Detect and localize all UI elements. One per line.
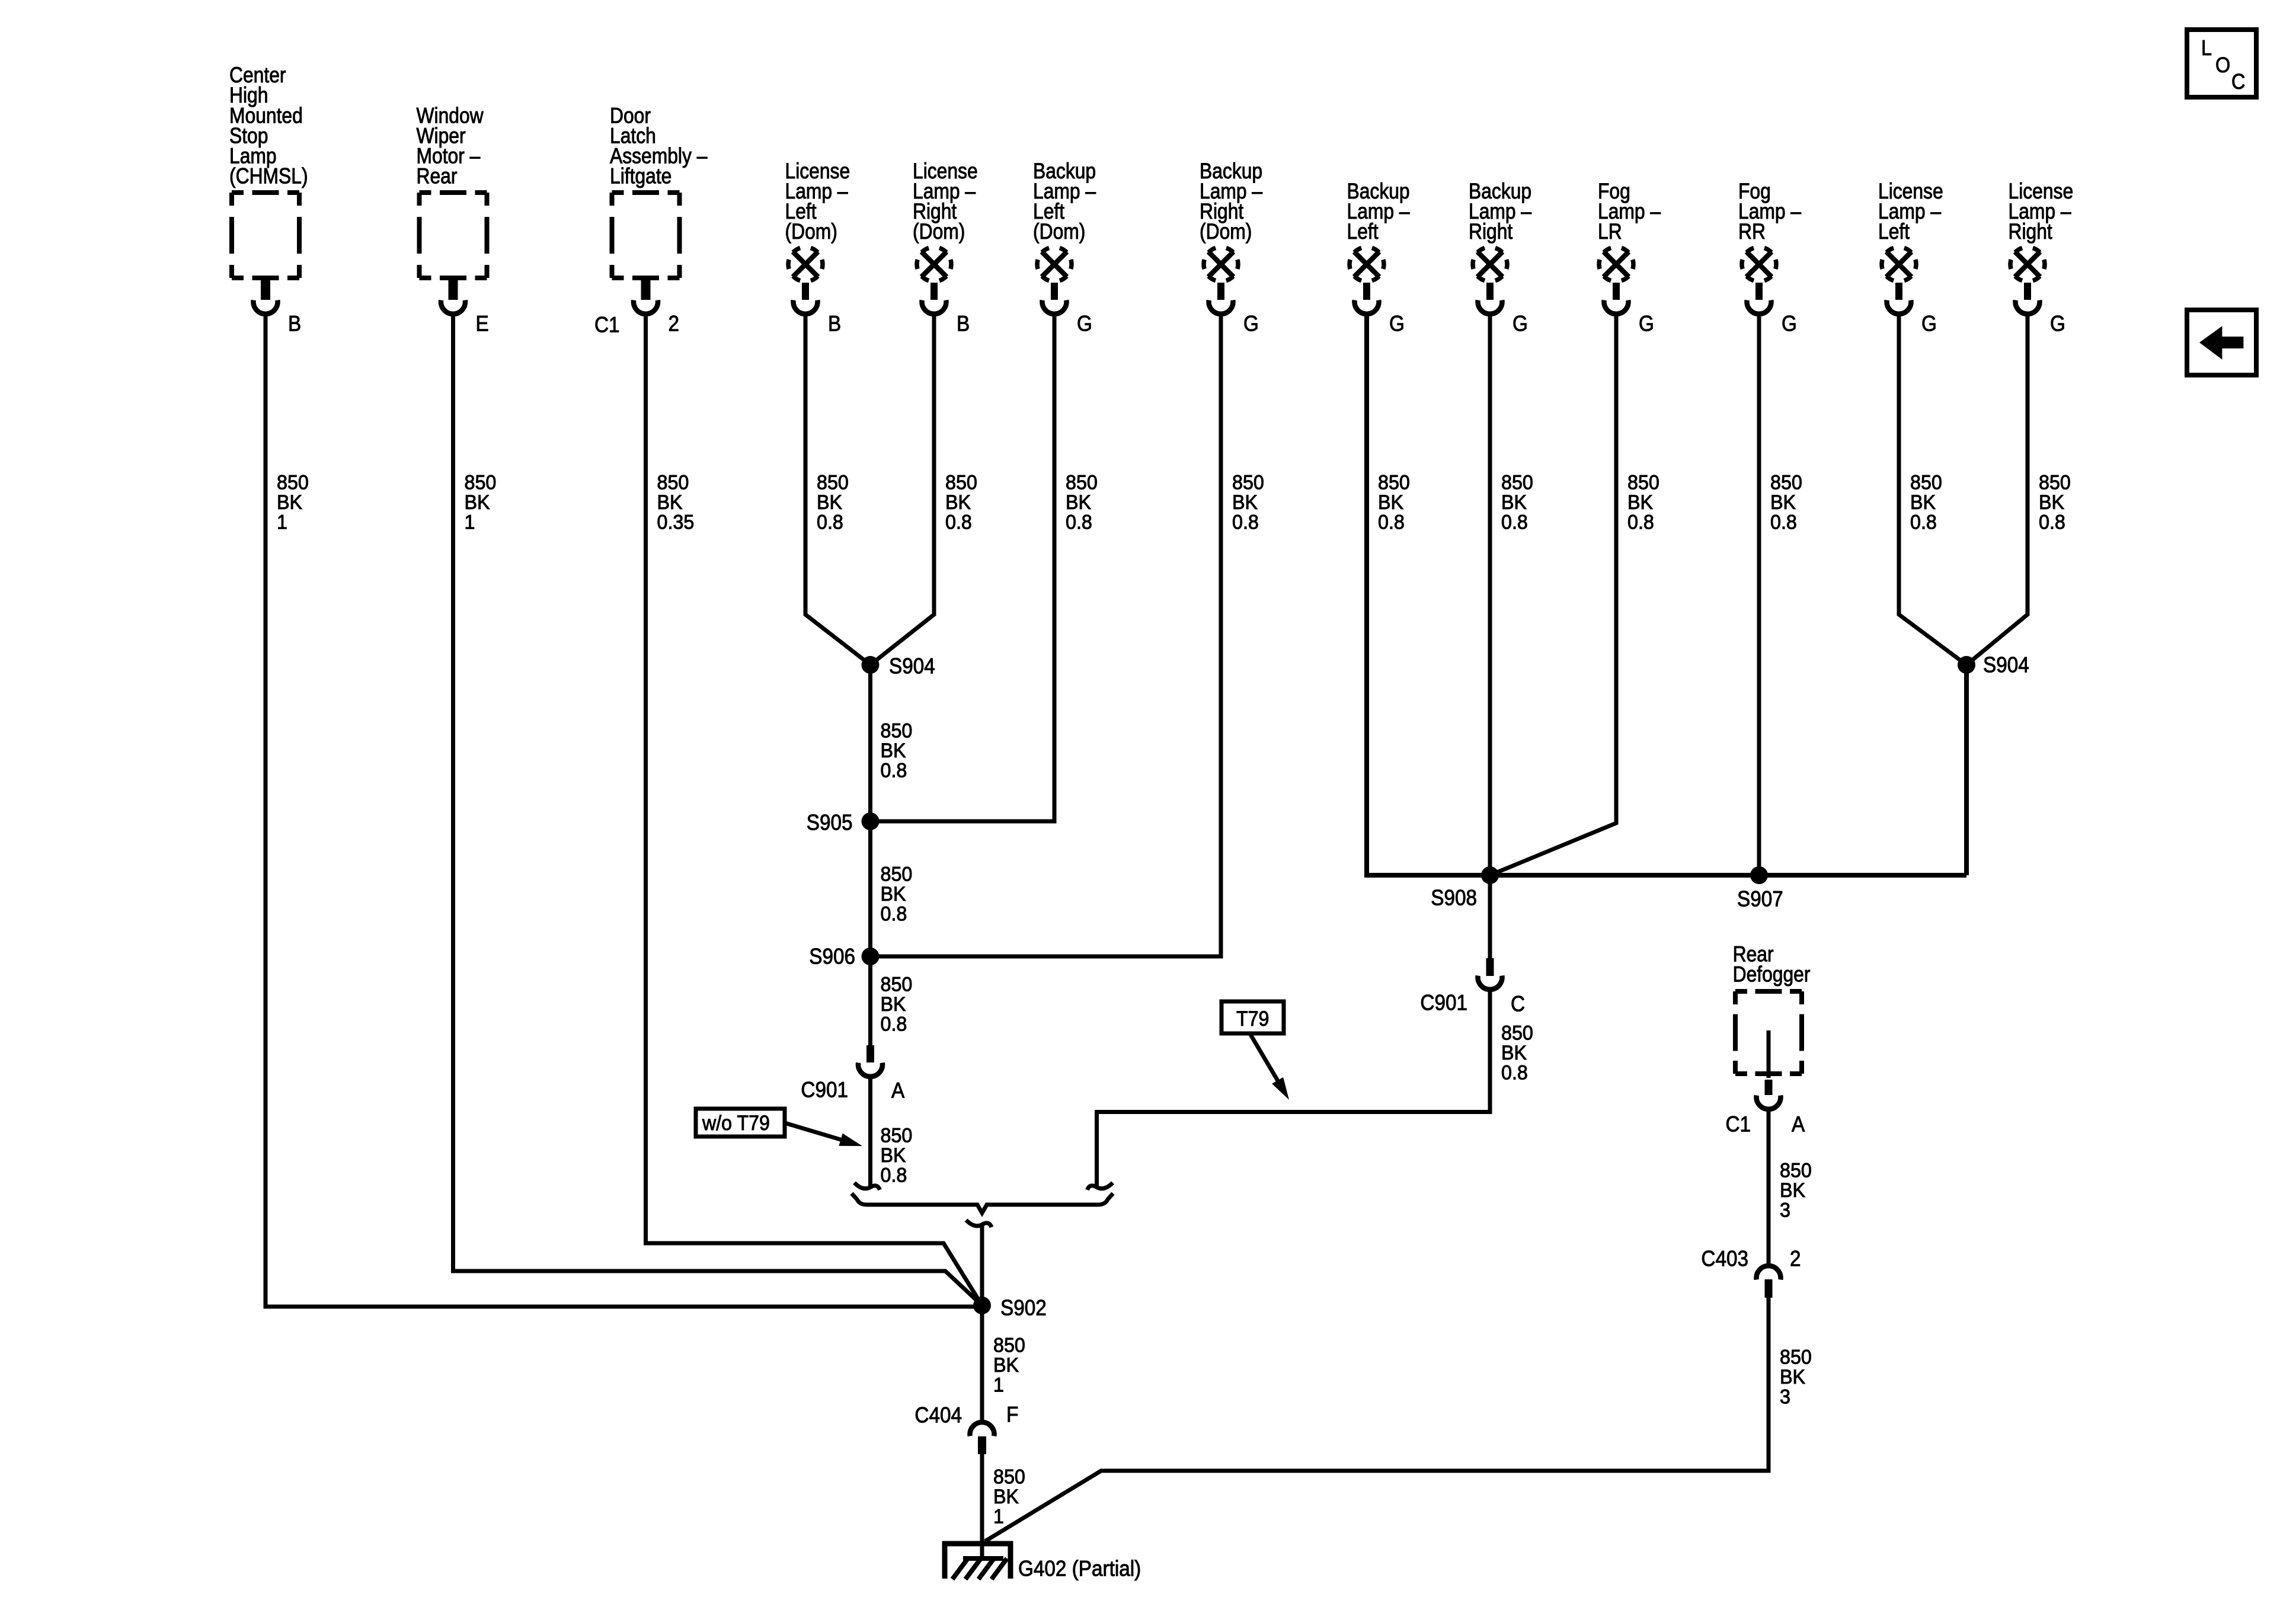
svg-text:3: 3	[1780, 1199, 1790, 1222]
svg-text:0.8: 0.8	[1910, 511, 1937, 534]
svg-text:BK: BK	[1232, 491, 1258, 514]
svg-text:0.8: 0.8	[817, 511, 843, 534]
svg-text:w/o T79: w/o T79	[702, 1112, 770, 1135]
svg-text:850: 850	[657, 472, 689, 494]
svg-text:S904: S904	[889, 654, 935, 678]
svg-text:Liftgate: Liftgate	[610, 164, 671, 188]
svg-text:0.8: 0.8	[881, 1164, 907, 1187]
svg-text:BK: BK	[1780, 1366, 1805, 1388]
svg-text:2: 2	[1790, 1247, 1801, 1271]
svg-text:0.8: 0.8	[945, 511, 972, 534]
svg-text:850: 850	[2039, 472, 2071, 494]
svg-text:Left: Left	[1347, 220, 1379, 244]
svg-text:G: G	[1512, 312, 1528, 336]
svg-text:0.8: 0.8	[1627, 511, 1654, 534]
svg-text:Rear: Rear	[417, 164, 458, 188]
svg-text:850: 850	[881, 974, 913, 996]
svg-text:0.8: 0.8	[1378, 511, 1405, 534]
svg-text:850: 850	[1770, 472, 1802, 494]
svg-text:BK: BK	[1501, 1042, 1527, 1064]
svg-text:850: 850	[1627, 472, 1659, 494]
svg-text:850: 850	[881, 1125, 913, 1147]
svg-text:G: G	[1782, 312, 1797, 336]
svg-text:0.8: 0.8	[1770, 511, 1797, 534]
svg-text:0.8: 0.8	[1501, 511, 1528, 534]
svg-text:RR: RR	[1738, 220, 1766, 244]
svg-text:S906: S906	[809, 945, 855, 969]
svg-text:BK: BK	[817, 491, 842, 514]
svg-text:1: 1	[993, 1506, 1004, 1528]
svg-text:BK: BK	[1066, 491, 1091, 514]
svg-text:BK: BK	[657, 491, 683, 514]
svg-text:G: G	[1389, 312, 1405, 336]
svg-text:BK: BK	[993, 1486, 1019, 1508]
svg-text:850: 850	[1066, 472, 1098, 494]
svg-text:A: A	[1792, 1112, 1805, 1137]
svg-text:BK: BK	[881, 993, 906, 1016]
svg-text:L: L	[2201, 36, 2212, 60]
svg-text:850: 850	[1780, 1160, 1812, 1182]
svg-text:C: C	[1511, 992, 1525, 1016]
svg-text:(Dom): (Dom)	[913, 220, 965, 244]
svg-text:850: 850	[993, 1466, 1025, 1489]
svg-text:C1: C1	[594, 313, 620, 337]
svg-text:T79: T79	[1236, 1008, 1269, 1031]
svg-text:0.8: 0.8	[881, 903, 907, 926]
svg-text:0.35: 0.35	[657, 511, 695, 534]
svg-text:C403: C403	[1701, 1247, 1748, 1271]
svg-text:(Dom): (Dom)	[785, 220, 837, 244]
svg-text:BK: BK	[881, 883, 906, 905]
svg-text:G: G	[1077, 312, 1092, 336]
svg-text:1: 1	[993, 1374, 1004, 1397]
svg-text:Right: Right	[2009, 220, 2053, 244]
svg-text:0.8: 0.8	[881, 760, 907, 782]
svg-text:1: 1	[277, 511, 287, 534]
svg-text:G: G	[2050, 312, 2065, 336]
svg-text:0.8: 0.8	[2039, 511, 2065, 534]
svg-text:G402 (Partial): G402 (Partial)	[1018, 1557, 1141, 1581]
svg-text:850: 850	[817, 472, 849, 494]
svg-text:O: O	[2215, 53, 2230, 77]
svg-text:850: 850	[277, 472, 309, 494]
svg-text:(CHMSL): (CHMSL)	[229, 164, 308, 188]
svg-text:(Dom): (Dom)	[1033, 220, 1085, 244]
svg-text:850: 850	[881, 863, 913, 886]
svg-text:BK: BK	[1378, 491, 1403, 514]
svg-text:1: 1	[465, 511, 475, 534]
svg-text:BK: BK	[1627, 491, 1653, 514]
svg-text:B: B	[828, 312, 841, 336]
svg-text:BK: BK	[1770, 491, 1796, 514]
svg-text:850: 850	[1501, 472, 1533, 494]
svg-text:F: F	[1006, 1403, 1018, 1427]
svg-text:850: 850	[465, 472, 497, 494]
svg-text:BK: BK	[1501, 491, 1527, 514]
svg-text:BK: BK	[881, 740, 906, 762]
svg-text:(Dom): (Dom)	[1200, 220, 1252, 244]
svg-text:850: 850	[1378, 472, 1410, 494]
svg-text:G: G	[1921, 312, 1937, 336]
svg-text:G: G	[1243, 312, 1259, 336]
svg-text:C: C	[2231, 70, 2245, 94]
svg-text:S904: S904	[1983, 653, 2029, 677]
svg-text:850: 850	[1910, 472, 1942, 494]
svg-text:850: 850	[1780, 1346, 1812, 1369]
svg-text:S908: S908	[1431, 886, 1477, 910]
svg-text:C901: C901	[1420, 991, 1467, 1015]
svg-text:BK: BK	[1910, 491, 1936, 514]
svg-text:LR: LR	[1598, 220, 1622, 244]
svg-text:850: 850	[1232, 472, 1264, 494]
svg-text:C1: C1	[1725, 1112, 1751, 1137]
svg-text:G: G	[1639, 312, 1654, 336]
svg-text:B: B	[288, 312, 301, 336]
svg-text:A: A	[891, 1078, 905, 1103]
svg-text:0.8: 0.8	[881, 1013, 907, 1036]
svg-text:0.8: 0.8	[1066, 511, 1092, 534]
svg-text:S907: S907	[1737, 887, 1783, 911]
svg-text:Right: Right	[1469, 220, 1513, 244]
svg-text:BK: BK	[945, 491, 971, 514]
svg-text:0.8: 0.8	[1501, 1062, 1528, 1084]
svg-text:B: B	[957, 312, 970, 336]
svg-text:2: 2	[669, 312, 680, 336]
svg-text:C901: C901	[801, 1078, 848, 1102]
svg-text:Defogger: Defogger	[1733, 962, 1811, 987]
svg-text:BK: BK	[277, 491, 302, 514]
svg-text:BK: BK	[465, 491, 490, 514]
svg-text:3: 3	[1780, 1386, 1790, 1409]
svg-text:S905: S905	[807, 811, 853, 835]
svg-text:BK: BK	[993, 1354, 1019, 1377]
svg-text:850: 850	[1501, 1022, 1533, 1045]
svg-text:E: E	[476, 312, 489, 336]
svg-text:850: 850	[945, 472, 977, 494]
svg-text:850: 850	[993, 1334, 1025, 1357]
svg-text:850: 850	[881, 720, 913, 742]
svg-text:C404: C404	[914, 1403, 962, 1427]
svg-text:BK: BK	[881, 1144, 906, 1167]
svg-text:Left: Left	[1878, 220, 1910, 244]
svg-text:BK: BK	[1780, 1179, 1805, 1202]
svg-text:S902: S902	[1000, 1296, 1047, 1320]
svg-text:0.8: 0.8	[1232, 511, 1259, 534]
svg-text:BK: BK	[2039, 491, 2064, 514]
